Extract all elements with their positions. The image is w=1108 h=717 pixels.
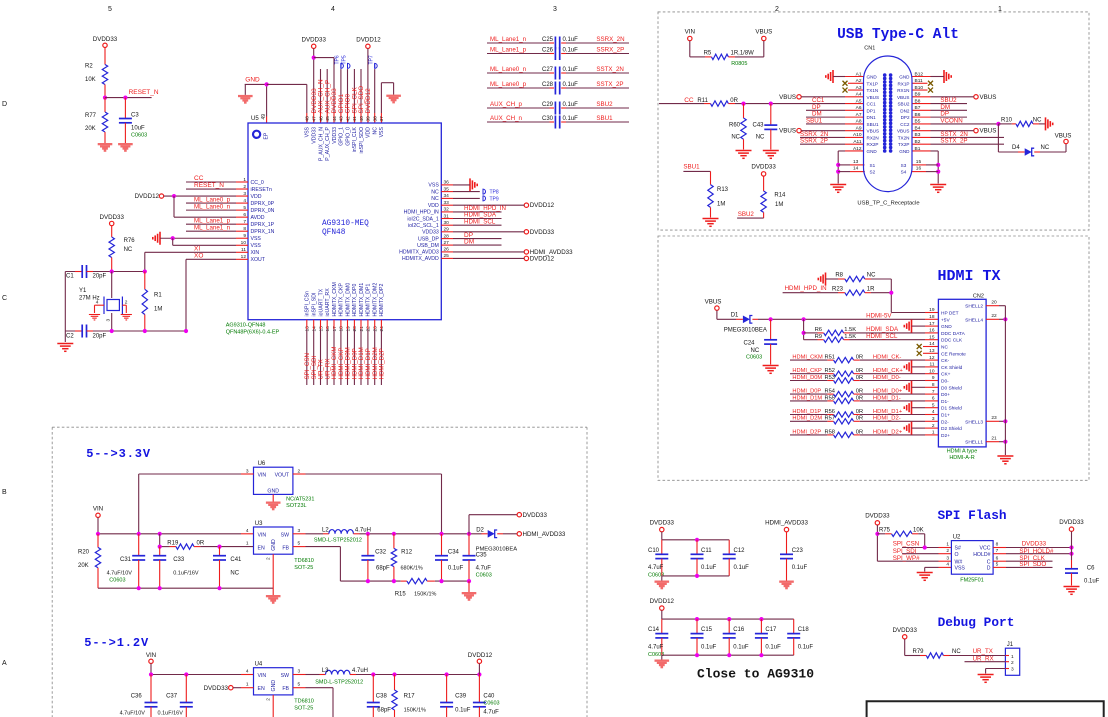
wire DVDD12 decoupling bottom rail — [662, 653, 794, 659]
svg-text:15: 15 — [916, 159, 922, 165]
crystal Y1 — [79, 272, 128, 332]
svg-text:SPI_SDO: SPI_SDO — [1019, 561, 1046, 568]
svg-text:NC: NC — [431, 189, 439, 195]
svg-text:C25: C25 — [542, 37, 554, 43]
power symbol DVDD33 (3.3V out) — [517, 512, 547, 519]
svg-text:DPRX_0P: DPRX_0P — [251, 201, 275, 207]
svg-text:22: 22 — [991, 313, 997, 319]
svg-text:R19: R19 — [167, 540, 179, 546]
power symbol DVDD12 (decoupling) — [650, 598, 675, 610]
svg-text:C6: C6 — [1087, 566, 1095, 572]
svg-text:150K/1%: 150K/1% — [414, 592, 436, 598]
wire pin 34 NC — [441, 197, 480, 199]
svg-text:D: D — [2, 101, 7, 108]
wire 1.2V output rail — [350, 672, 482, 676]
wire B4 to VBUS — [912, 130, 974, 132]
svg-text:GND: GND — [899, 149, 910, 154]
svg-text:4: 4 — [246, 528, 249, 534]
svg-text:inSPI_CSn: inSPI_CSn — [305, 291, 311, 316]
svg-text:0.1uF: 0.1uF — [734, 565, 750, 571]
svg-text:D0-: D0- — [941, 379, 949, 385]
svg-text:4.7uF/10V: 4.7uF/10V — [120, 711, 146, 717]
ground (C14 group) — [655, 660, 670, 669]
wire pin 19 HDMI_D0M — [347, 320, 349, 385]
svg-text:USB_DM: USB_DM — [417, 243, 439, 249]
svg-text:1.5K: 1.5K — [844, 334, 856, 340]
sheet zone letter A — [2, 660, 7, 667]
svg-text:VIN: VIN — [258, 673, 267, 679]
svg-text:NC: NC — [751, 348, 760, 354]
svg-text:3: 3 — [298, 528, 301, 534]
svg-text:ioI2C_SCL_1: ioI2C_SCL_1 — [408, 223, 439, 229]
wire HDMI_CK- to CN2 — [860, 355, 939, 361]
svg-text:DVDD12: DVDD12 — [468, 652, 493, 659]
ground (C10 group) — [655, 581, 670, 590]
wire HDMI_D0+ to CN2 — [860, 389, 939, 395]
wire DVDD12 to pin 3 and pin 6 — [164, 194, 248, 217]
svg-text:NC/AT5231: NC/AT5231 — [286, 497, 314, 503]
svg-text:4.7uF: 4.7uF — [483, 710, 499, 716]
wire HDMI_D0- to CN2 — [860, 375, 939, 381]
svg-text:S2: S2 — [870, 170, 876, 175]
svg-text:HDMITX_DP0: HDMITX_DP0 — [352, 284, 358, 317]
wire B12 GND — [912, 76, 944, 78]
svg-text:21: 21 — [359, 326, 365, 332]
wire pin 36 VSS — [441, 184, 470, 186]
resistor R77 — [85, 98, 108, 143]
svg-text:49: 49 — [261, 114, 267, 120]
net label ML_Lane0_n — [194, 203, 231, 210]
svg-text:R23: R23 — [832, 286, 844, 292]
net label UR_RX (pin 16) — [324, 359, 331, 380]
svg-text:B7: B7 — [915, 105, 921, 111]
svg-text:NC: NC — [124, 247, 133, 253]
wire HDMI_SDA to pin 16 — [850, 326, 939, 333]
ground (C6) — [1064, 587, 1080, 595]
svg-text:CC: CC — [194, 175, 204, 182]
svg-text:CK-: CK- — [941, 358, 950, 364]
svg-text:4.7uF: 4.7uF — [648, 565, 664, 571]
svg-text:C27: C27 — [542, 67, 554, 73]
svg-text:D2 Shield: D2 Shield — [941, 426, 962, 432]
wire DVDD33 decoupling bottom rail — [662, 574, 729, 581]
svg-text:C0603: C0603 — [131, 133, 147, 139]
wire RESET_N to pin 2 — [186, 188, 248, 190]
svg-text:HDMI A type: HDMI A type — [947, 449, 978, 455]
wire pin 23 HDMI_D2M — [374, 320, 376, 385]
resistor R12 — [391, 534, 423, 581]
svg-text:R79: R79 — [913, 649, 925, 655]
connector J1 — [1005, 642, 1019, 675]
svg-text:DVDD33: DVDD33 — [892, 627, 917, 634]
ground (C43) — [763, 151, 779, 159]
svg-text:ML_Lane1_p: ML_Lane1_p — [194, 217, 231, 224]
net label HDMI_D2P (R58) — [792, 429, 821, 435]
svg-text:D0+: D0+ — [941, 392, 950, 398]
svg-text:5: 5 — [996, 562, 999, 568]
wire VIN rail 3.3V — [96, 518, 254, 536]
resistor R19 — [158, 534, 254, 550]
svg-text:VBUS: VBUS — [1055, 133, 1072, 140]
svg-text:R10: R10 — [1001, 118, 1013, 124]
svg-text:DP1: DP1 — [867, 108, 876, 113]
svg-text:R77: R77 — [85, 113, 97, 119]
net label SBU1 (R13) — [683, 164, 700, 171]
svg-text:17: 17 — [332, 326, 338, 332]
no-connect pin 13 — [917, 351, 939, 356]
wire pin 37 VSS to ground — [381, 83, 393, 123]
capacitor C11 — [691, 540, 717, 576]
svg-text:XO: XO — [194, 253, 203, 260]
ground (Y1 pin 4) — [89, 315, 100, 320]
svg-text:RX2P: RX2P — [867, 142, 879, 147]
resistor R17 — [392, 675, 426, 717]
wire B1 GND to ground — [912, 151, 940, 184]
svg-text:SPI Flash: SPI Flash — [937, 508, 1006, 523]
svg-text:DVDD33: DVDD33 — [204, 685, 229, 692]
wire pin 32 HDMI_HPD_IN — [441, 211, 501, 213]
svg-text:NC: NC — [230, 571, 239, 577]
svg-text:150K/1%: 150K/1% — [404, 708, 426, 714]
capacitor C10 — [648, 540, 668, 579]
regulator U3 — [246, 521, 301, 560]
svg-text:CC: CC — [684, 97, 694, 104]
resistor R54 — [790, 389, 863, 397]
wire B9 to VBUS — [912, 96, 974, 98]
svg-text:6: 6 — [996, 555, 999, 561]
svg-text:1: 1 — [932, 430, 935, 436]
connector CN1 USB Type-C receptacle — [853, 46, 923, 192]
power symbol DVDD33 (R79) — [892, 627, 917, 639]
svg-text:inSPI_CLK: inSPI_CLK — [352, 126, 358, 152]
wire pin 45 AUX_CH_P — [326, 69, 328, 123]
resistor R60 — [729, 104, 746, 150]
svg-text:4: 4 — [946, 562, 949, 568]
test point TP7 — [369, 55, 378, 68]
svg-text:GND: GND — [899, 75, 910, 80]
analog ground (pin 2 D2 Shield) — [904, 422, 911, 435]
svg-text:PMEG3010BEA: PMEG3010BEA — [724, 328, 767, 334]
svg-text:0.1uF: 0.1uF — [563, 37, 579, 43]
wire CC to pin 1 — [186, 181, 248, 183]
svg-text:RX1N: RX1N — [897, 88, 909, 93]
svg-text:HDMITX_DM0: HDMITX_DM0 — [345, 283, 351, 317]
svg-text:AUX_CH_p: AUX_CH_p — [490, 101, 523, 108]
svg-text:R58: R58 — [825, 429, 835, 435]
svg-text:HDMITX_CKM: HDMITX_CKM — [332, 282, 338, 316]
net label HDMI_D2P (pin 24) — [379, 348, 386, 379]
analog ground (pin 8 D0 Shield) — [904, 381, 911, 394]
wire pin 43 GPIO1 — [340, 69, 342, 123]
svg-text:DN2: DN2 — [900, 108, 910, 113]
wire pin 2 D2 Shield — [912, 427, 939, 429]
svg-text:HDMI_D1+: HDMI_D1+ — [873, 409, 903, 415]
part info SMD-L-STP252012 (L3) — [315, 680, 363, 686]
net label SSTX_2P (C28) — [596, 81, 623, 88]
svg-text:ML_Lane0_p: ML_Lane0_p — [194, 196, 231, 203]
svg-text:PMEG3010BEA: PMEG3010BEA — [476, 546, 518, 552]
svg-text:VSS: VSS — [428, 183, 439, 189]
svg-text:NC: NC — [373, 127, 379, 135]
svg-text:A2: A2 — [856, 78, 862, 84]
wire U6 VOUT to rail — [293, 474, 442, 534]
wire R2 to node RESET_N — [104, 85, 106, 98]
power symbol VBUS (D1) — [705, 299, 722, 311]
svg-text:VSS: VSS — [305, 126, 311, 137]
note Close to AG9310 — [697, 667, 814, 682]
wire SPI_CSN to pin 1 — [902, 545, 951, 549]
net label DVDD33 (IC top pin) — [331, 88, 338, 114]
svg-text:C0603: C0603 — [483, 701, 499, 707]
net label SPI_CSN (pin 13) — [304, 353, 311, 379]
wire SDA/SCL pullup riser — [802, 319, 806, 339]
power symbol VIN (3.3V) — [93, 506, 103, 518]
svg-text:RESET_N: RESET_N — [129, 89, 159, 96]
svg-text:C33: C33 — [173, 557, 185, 563]
wire DVDD33 output branch — [469, 515, 517, 534]
svg-text:15: 15 — [318, 326, 324, 332]
svg-text:TP9: TP9 — [490, 196, 499, 202]
svg-text:47: 47 — [312, 116, 318, 122]
svg-text:A6: A6 — [856, 105, 862, 111]
svg-text:SW: SW — [281, 673, 289, 679]
net label SBU2 (C29) — [596, 101, 613, 108]
net label UR_TX — [973, 648, 993, 655]
wire SHELL3 pin 23 — [986, 415, 1007, 423]
part info TD6810 (U3) — [294, 558, 314, 571]
svg-text:23: 23 — [991, 415, 997, 421]
svg-text:38: 38 — [373, 116, 379, 122]
svg-text:C26: C26 — [542, 47, 554, 53]
wire DVDD12 decoupling rail — [662, 610, 794, 621]
svg-text:C14: C14 — [648, 627, 660, 633]
svg-text:TP7: TP7 — [369, 55, 375, 64]
svg-text:SPI_SDI: SPI_SDI — [893, 548, 917, 555]
part info FM25F01 — [960, 578, 984, 584]
analog ground (R10) — [1046, 117, 1053, 130]
svg-text:B8: B8 — [915, 98, 921, 104]
wire HDMI-5V rail — [752, 317, 938, 321]
svg-text:44: 44 — [332, 116, 338, 122]
wire ML_Lane0_p to pin 4 — [186, 202, 248, 204]
wire HDMI_D2+ to CN2 — [860, 429, 939, 435]
wire pin 13 SPI_CSN — [306, 320, 308, 385]
svg-text:SBU1: SBU1 — [867, 122, 879, 127]
wire VCONN to D4 — [998, 124, 1024, 152]
svg-text:B: B — [2, 489, 7, 496]
svg-text:SHELL4: SHELL4 — [965, 317, 983, 323]
wire VCC pin 8 to DVDD33 — [993, 545, 1074, 549]
analog ground (pin 11 CK Shield) — [904, 360, 911, 373]
svg-text:ML_Lane1_p: ML_Lane1_p — [490, 46, 527, 53]
wire 3.3V output rail — [353, 532, 481, 536]
svg-text:SBU2: SBU2 — [596, 101, 613, 108]
svg-text:C39: C39 — [455, 694, 467, 700]
net label UR_TX (pin 15) — [318, 359, 325, 379]
svg-text:D1-: D1- — [941, 399, 949, 405]
svg-text:AUX_CH_n: AUX_CH_n — [490, 115, 523, 122]
svg-text:R56: R56 — [825, 409, 835, 415]
svg-text:W#: W# — [955, 559, 963, 565]
capacitor C1 — [66, 265, 107, 280]
part info TD6810 (U4) — [294, 699, 314, 712]
capacitor C43 — [753, 104, 778, 150]
net label ML_Lane0_p (C28) — [490, 81, 527, 88]
svg-text:QFN48P(6X6)-0.4-EP: QFN48P(6X6)-0.4-EP — [226, 330, 280, 336]
net label DVDD33 (IC top pin) — [311, 88, 318, 114]
wire D4 to VBUS — [1034, 144, 1066, 152]
svg-text:R11: R11 — [697, 98, 708, 104]
svg-text:SSTX_2P: SSTX_2P — [596, 81, 623, 88]
svg-text:+5V: +5V — [941, 317, 950, 323]
svg-text:DM: DM — [464, 238, 474, 245]
svg-text:VBUS: VBUS — [867, 129, 880, 134]
svg-text:20K: 20K — [85, 126, 96, 132]
resistor R1 — [142, 272, 162, 332]
power symbol DVDD12 (pin 33) — [524, 202, 554, 209]
wire ML_Lane0_n to pin 5 — [186, 209, 248, 211]
svg-text:R6: R6 — [815, 327, 822, 333]
resistor R8 — [826, 273, 892, 282]
svg-text:C40: C40 — [483, 694, 495, 700]
svg-text:VOUT: VOUT — [275, 473, 290, 479]
net label HDMI_D0M (pin 19) — [345, 347, 352, 379]
svg-text:U3: U3 — [255, 521, 263, 527]
inductor L2 — [322, 527, 371, 534]
svg-text:4: 4 — [331, 6, 335, 13]
svg-text:14: 14 — [853, 166, 859, 172]
svg-text:0.1uF/16V: 0.1uF/16V — [158, 711, 184, 717]
wire pin 46 AUX_CH_N — [320, 69, 322, 123]
svg-text:14: 14 — [312, 326, 318, 332]
svg-text:GND: GND — [941, 324, 952, 330]
wire SSTX_2P stub (B2) — [912, 138, 1004, 145]
memory U2 FM25F01 — [946, 535, 998, 575]
net label HDMI_D2M (pin 23) — [372, 347, 379, 379]
svg-text:DVDD33: DVDD33 — [650, 520, 675, 527]
svg-text:SHELL1: SHELL1 — [965, 440, 983, 446]
svg-text:DVDD12: DVDD12 — [356, 36, 381, 43]
svg-text:D0 Shield: D0 Shield — [941, 385, 962, 391]
wire 3.3V fb bottom rail — [366, 579, 471, 583]
svg-text:C29: C29 — [542, 102, 554, 108]
no-connect A3 — [843, 88, 864, 93]
svg-text:CC2: CC2 — [900, 122, 910, 127]
svg-text:HDMI_AVDD33: HDMI_AVDD33 — [523, 531, 566, 538]
svg-text:R12: R12 — [401, 550, 413, 556]
svg-text:DN1: DN1 — [867, 115, 877, 120]
svg-text:37: 37 — [379, 116, 385, 122]
section title SPI Flash — [937, 508, 1006, 523]
svg-text:20K: 20K — [78, 563, 89, 569]
svg-text:HDMITX_DP1: HDMITX_DP1 — [366, 284, 372, 317]
wire HDMI_SCL to pin 15 — [850, 333, 939, 340]
svg-text:TX1N: TX1N — [867, 88, 879, 93]
wire VBUS to D1 — [717, 310, 743, 319]
svg-text:5-->1.2V: 5-->1.2V — [84, 636, 149, 650]
svg-text:C34: C34 — [448, 550, 460, 556]
net label SPI_CLK (IC top pin) — [352, 86, 359, 113]
wire VIN rail 1.2V — [149, 664, 254, 677]
power symbol HDMI_AVDD33 (3.3V out) — [517, 531, 566, 538]
net label AUX_CH_P (IC top pin) — [324, 80, 331, 114]
resistor R10 — [998, 118, 1045, 127]
U5 bottom pin names/numbers — [305, 282, 386, 331]
svg-text:USB_TP_C_Receptacle: USB_TP_C_Receptacle — [857, 201, 919, 207]
svg-text:CE Remote: CE Remote — [941, 351, 966, 357]
title block border — [867, 701, 1104, 717]
net label SPI_CLK — [1019, 555, 1045, 562]
svg-text:SSTX_2P: SSTX_2P — [940, 138, 967, 145]
svg-text:C23: C23 — [792, 548, 804, 554]
svg-text:8: 8 — [932, 382, 935, 388]
svg-text:ML_Lane0_p: ML_Lane0_p — [490, 81, 527, 88]
svg-text:R52: R52 — [825, 368, 835, 374]
svg-text:4: 4 — [96, 300, 99, 306]
svg-text:R75: R75 — [879, 528, 891, 534]
svg-text:SBU1: SBU1 — [806, 117, 823, 124]
regulator U6 — [246, 461, 301, 495]
svg-text:NC: NC — [867, 273, 876, 279]
svg-text:R1: R1 — [154, 293, 162, 299]
capacitor C32 — [361, 534, 390, 581]
svg-text:CC_0: CC_0 — [251, 180, 264, 186]
svg-text:CN2: CN2 — [973, 293, 984, 299]
svg-text:HDMI_D2P: HDMI_D2P — [379, 348, 386, 379]
ground (R77) — [98, 143, 113, 152]
net label HDMI_D1M (R55) — [792, 395, 822, 401]
wire DVDD33 to pin 44 — [314, 58, 334, 123]
svg-text:HDMI_D1M: HDMI_D1M — [792, 395, 822, 401]
svg-text:39: 39 — [366, 116, 372, 122]
svg-text:SBU1: SBU1 — [683, 164, 700, 171]
svg-text:ML_Lane0_n: ML_Lane0_n — [194, 203, 231, 210]
svg-text:3: 3 — [1011, 667, 1014, 673]
net label SPI_WP# — [893, 555, 920, 562]
wire DM stub (B7) — [912, 104, 967, 111]
wire 3.3V bottom rail — [98, 586, 273, 590]
wire DVDD33 to R2 — [104, 48, 106, 65]
wire XI to pin 11 — [145, 252, 248, 271]
svg-text:inSPI_SDI: inSPI_SDI — [312, 293, 318, 317]
capacitor C14 — [648, 619, 668, 658]
svg-text:R55: R55 — [825, 395, 835, 401]
svg-text:C1: C1 — [66, 274, 74, 280]
wire pin 16 UR_RX — [326, 320, 328, 385]
power symbol DVDD33 (IC top) — [301, 36, 326, 48]
svg-text:A3: A3 — [856, 85, 862, 91]
capacitor C30 — [487, 116, 629, 129]
svg-text:TD6810: TD6810 — [294, 558, 314, 564]
wire SBU1 stub (A8) — [806, 117, 864, 124]
wire pin 27 USB_DM — [441, 244, 501, 246]
svg-text:R5: R5 — [704, 51, 712, 57]
svg-text:B3: B3 — [915, 132, 921, 138]
svg-text:0.1uF: 0.1uF — [448, 566, 464, 572]
svg-text:FM25F01: FM25F01 — [960, 578, 984, 584]
section title Debug Port — [938, 615, 1015, 630]
svg-text:Y1: Y1 — [79, 288, 87, 294]
svg-text:GND: GND — [245, 77, 260, 84]
power symbol DVDD33 (R75) — [865, 513, 890, 526]
svg-text:A4: A4 — [856, 92, 862, 98]
wire VSS pins 9/10 — [160, 236, 248, 245]
svg-text:3: 3 — [106, 319, 112, 322]
svg-text:VSS: VSS — [379, 126, 385, 137]
svg-text:16: 16 — [916, 166, 922, 172]
svg-text:DP2: DP2 — [901, 115, 910, 120]
svg-text:DVDD33: DVDD33 — [865, 513, 890, 520]
